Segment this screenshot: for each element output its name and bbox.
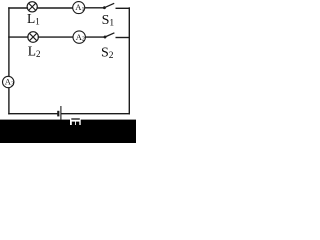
ammeter A1 [73,2,85,14]
wire left vertical lower (A3 to bottom corner) [8,88,10,114]
notch black square left [72,122,75,125]
wire L1 to A1 [37,7,73,9]
wire left vertical upper (top corner to A3) [8,8,10,77]
lamp L1 [27,2,37,12]
notch black square right [76,122,79,125]
wire L2 to A2 [38,36,73,38]
wire S1 fixed side to right corner [116,7,129,9]
wire S2 fixed side to right vertical [116,37,129,39]
ammeter A2 [73,31,85,43]
black bar bottom [0,120,136,143]
ammeter A3 [3,76,14,87]
wire A1 to switch S1 contact [85,7,104,9]
switch S1 [103,3,114,9]
battery cell: long thin positive plate [60,106,62,120]
wire top-left horizontal to L1 [9,7,28,9]
wire bottom left (corner to battery) [9,113,58,115]
wire bottom right (battery to corner) [62,113,130,115]
notch top black line [71,118,80,119]
notch white box on bar [70,119,81,125]
switch S2 [104,33,115,39]
battery cell: short thick negative plate [57,111,59,117]
wire A2 to switch S2 contact [86,36,105,38]
lamp L2 [28,32,39,43]
wire row2 left to L2 [9,36,28,38]
wire right vertical [128,8,130,114]
